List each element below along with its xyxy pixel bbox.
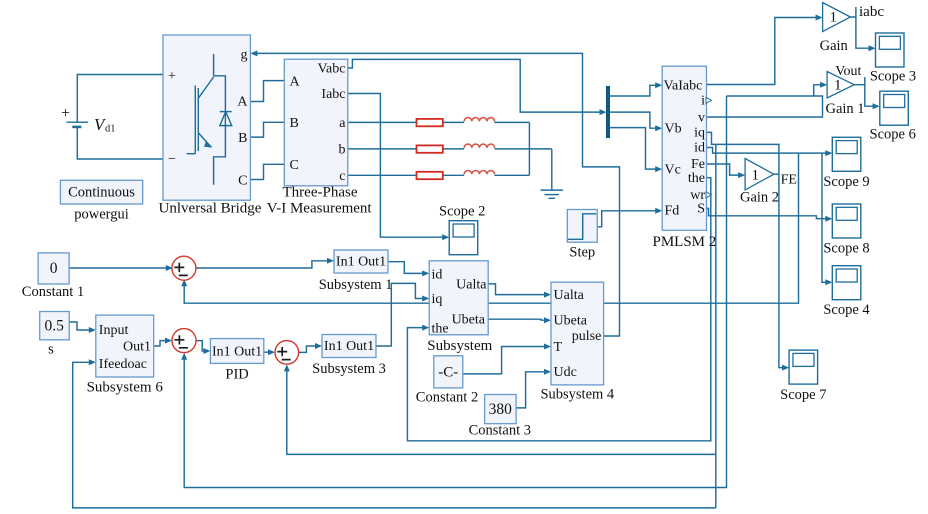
svg-text:Subsystem: Subsystem <box>427 338 492 354</box>
svg-text:Vout: Vout <box>835 64 861 79</box>
Scope 9 <box>823 137 869 190</box>
svg-text:−: − <box>168 152 176 167</box>
wire iq feedback to sum2 <box>287 367 716 455</box>
svg-text:+: + <box>168 69 176 84</box>
Step block <box>567 210 597 261</box>
Scope 7 <box>780 350 826 403</box>
svg-text:A: A <box>290 75 301 90</box>
svg-text:the: the <box>688 171 705 186</box>
resistor Rb <box>417 145 443 152</box>
svg-text:Iabc: Iabc <box>321 87 345 102</box>
wire Constant 3 to Udc <box>516 372 548 408</box>
svg-text:v: v <box>698 110 705 125</box>
svg-text:Three-Phase: Three-Phase <box>283 184 358 200</box>
wire bridge A to VI A <box>250 81 284 102</box>
svg-text:pulse: pulse <box>572 329 602 344</box>
svg-text:Step: Step <box>569 245 595 261</box>
PMLSM 2 <box>653 66 717 250</box>
inductor La <box>464 118 494 122</box>
Three-Phase V-I Measurement <box>267 59 373 216</box>
svg-text:Gain 1: Gain 1 <box>825 101 864 117</box>
wire Out1 to sum1 <box>154 341 170 346</box>
svg-text:T: T <box>554 340 563 355</box>
svg-text:Subsystem 3: Subsystem 3 <box>312 361 386 377</box>
wire v branch to Gain 1 <box>814 85 826 96</box>
svg-text:-C-: -C- <box>438 365 458 381</box>
svg-text:Scope 3: Scope 3 <box>870 68 916 84</box>
svg-text:Out1: Out1 <box>123 340 151 355</box>
Gain <box>820 3 885 54</box>
wire iq feedback to Ifeedoac <box>73 362 716 508</box>
svg-text:PID: PID <box>225 367 248 383</box>
wire Subsystem 3 to iq input <box>376 283 427 346</box>
svg-text:S: S <box>697 202 705 217</box>
wire Gain 1 to Scope 6 <box>854 77 877 106</box>
Gain 1 <box>825 64 864 117</box>
wire star junction vertical <box>528 122 530 175</box>
Constant 1 <box>22 253 84 300</box>
svg-text:Ualta: Ualta <box>456 277 487 292</box>
Scope 8 <box>823 204 869 256</box>
svg-text:Input: Input <box>99 323 129 338</box>
svg-text:Vabc: Vabc <box>318 62 346 77</box>
wire v output loop <box>707 96 823 117</box>
resistor Rc <box>417 172 443 179</box>
wire pulse to g <box>253 53 620 336</box>
wire bridge C to VI C <box>250 164 284 179</box>
svg-text:1: 1 <box>752 168 760 184</box>
svg-text:Unlversal Bridge: Unlversal Bridge <box>159 201 262 217</box>
ground <box>541 190 564 198</box>
svg-text:V-I Measurement: V-I Measurement <box>267 201 373 217</box>
svg-text:powergui: powergui <box>74 207 129 223</box>
Constant 2 <box>416 356 478 406</box>
wire bridge B to VI B <box>250 122 284 137</box>
svg-text:In1 Out1: In1 Out1 <box>336 255 386 270</box>
wire v feedback down to sum1 <box>184 96 726 488</box>
Subsystem 1 <box>319 250 393 293</box>
Subsystem 6 <box>87 315 164 395</box>
battery V_d1 <box>61 105 116 135</box>
svg-text:Vb: Vb <box>665 122 682 137</box>
svg-text:id: id <box>694 141 705 156</box>
wire the output feedback <box>407 178 710 441</box>
Subsystem 3 <box>312 335 386 378</box>
svg-text:Scope 4: Scope 4 <box>823 302 870 318</box>
svg-text:1: 1 <box>830 10 838 26</box>
svg-text:Constant 2: Constant 2 <box>416 390 478 406</box>
svg-text:iq: iq <box>432 292 443 307</box>
svg-text:Constant 1: Constant 1 <box>22 284 84 300</box>
svg-text:VaIabc: VaIabc <box>664 78 703 93</box>
svg-text:Ifeedoac: Ifeedoac <box>99 357 147 372</box>
sum junction sum0 <box>172 256 196 280</box>
svg-text:g: g <box>241 48 248 63</box>
wire iq branch down <box>715 144 717 508</box>
svg-text:B: B <box>238 131 247 146</box>
mux bar <box>606 86 610 138</box>
svg-text:Ualta: Ualta <box>554 288 585 303</box>
svg-text:B: B <box>290 116 299 131</box>
wire phase b <box>348 148 552 150</box>
svg-text:Scope 8: Scope 8 <box>823 240 869 256</box>
svg-text:Fd: Fd <box>665 204 680 219</box>
wire battery plus to bridge <box>77 75 163 123</box>
constant 0.5 <box>40 312 69 358</box>
Scope 4 <box>823 266 870 318</box>
Scope 2 <box>439 203 485 254</box>
svg-text:Scope 9: Scope 9 <box>823 174 869 190</box>
sum junction sum2 <box>275 341 299 365</box>
wire sum1 to PID <box>196 341 208 351</box>
svg-text:FE: FE <box>781 173 797 188</box>
svg-text:380: 380 <box>489 401 513 418</box>
sum junction sum1 <box>172 329 196 353</box>
svg-text:iq: iq <box>694 126 705 141</box>
wire Iabc to Scope 2 <box>348 94 447 238</box>
wire Vabc to mux bar <box>348 59 604 112</box>
svg-text:Scope 7: Scope 7 <box>780 387 826 403</box>
Scope 6 <box>870 91 916 143</box>
svg-text:Constant 3: Constant 3 <box>469 423 531 439</box>
wire mux to VaIabc <box>610 85 660 96</box>
svg-text:Ubeta: Ubeta <box>452 313 486 328</box>
wire sum0 to Subsystem 1 <box>195 261 332 268</box>
wire ground lead <box>551 149 553 190</box>
svg-text:A: A <box>237 95 248 110</box>
wire id output to Scope 9 <box>707 148 831 154</box>
svg-text:Scope 2: Scope 2 <box>439 203 485 219</box>
wire Subsystem 1 to id input <box>388 262 427 274</box>
wire Gain 2 out stub <box>774 173 779 175</box>
svg-text:PMLSM 2: PMLSM 2 <box>653 234 717 250</box>
inductor Lb <box>464 144 494 148</box>
svg-text:Ubeta: Ubeta <box>554 314 588 329</box>
svg-text:s: s <box>48 342 54 358</box>
wire Gain to Scope 3 <box>850 7 873 48</box>
wire Constant 1 to sum0 <box>69 267 170 269</box>
wire mux to Vc <box>610 128 660 170</box>
powergui Continuous <box>60 180 142 222</box>
wire Constant 2 to T <box>463 347 549 374</box>
Universal Bridge U1 <box>159 35 262 217</box>
wire VaIabc out to Gain <box>707 18 821 85</box>
svg-text:d1: d1 <box>105 124 116 135</box>
inductor Lc <box>464 171 494 175</box>
Scope 3 <box>870 33 916 84</box>
svg-text:b: b <box>339 143 346 158</box>
svg-text:a: a <box>339 116 346 131</box>
wire sum2 to Subsystem 3 <box>299 346 320 352</box>
svg-text:+: + <box>61 105 70 122</box>
Subsystem 4 <box>540 282 614 403</box>
svg-text:Vc: Vc <box>665 162 681 177</box>
svg-text:Subsystem 4: Subsystem 4 <box>540 387 614 403</box>
wire 0.5 to Input <box>69 322 93 330</box>
wire S to Scope 8 <box>707 208 831 218</box>
Constant 3 <box>469 395 531 439</box>
svg-text:0.5: 0.5 <box>45 318 65 335</box>
wire Step to Fd <box>597 211 660 227</box>
resistor Ra <box>417 119 443 126</box>
svg-text:Subsystem 6: Subsystem 6 <box>87 379 164 395</box>
wire Fe to Gain 2 <box>707 164 743 175</box>
wire battery minus to bridge <box>77 127 163 159</box>
svg-text:i: i <box>701 94 705 109</box>
wire Ualta to Subsystem 4 <box>488 284 548 295</box>
svg-text:In1 Out1: In1 Out1 <box>212 344 262 359</box>
svg-text:1: 1 <box>834 78 842 94</box>
svg-text:Continuous: Continuous <box>68 185 135 201</box>
svg-text:the: the <box>432 322 449 337</box>
svg-text:Gain: Gain <box>820 38 849 54</box>
wire phase c <box>348 174 530 176</box>
svg-text:c: c <box>339 169 345 184</box>
wire id branch to sum0 <box>184 153 798 303</box>
svg-text:Udc: Udc <box>554 365 577 380</box>
svg-text:Scope 6: Scope 6 <box>870 127 916 143</box>
svg-text:0: 0 <box>50 260 58 277</box>
wire phase a <box>348 121 530 123</box>
PID block <box>210 339 263 383</box>
Gain 2 <box>740 159 797 206</box>
wire iq output to Scope 7 <box>707 132 787 367</box>
svg-text:Gain 2: Gain 2 <box>740 190 779 206</box>
svg-text:In1 Out1: In1 Out1 <box>324 339 374 354</box>
svg-text:id: id <box>432 268 443 283</box>
wire Ubeta to Subsystem 4 <box>488 319 548 320</box>
svg-text:C: C <box>290 158 299 173</box>
wire id branch to Scope 4 <box>822 153 830 282</box>
Subsystem (alpha-beta) <box>427 261 492 354</box>
svg-text:iabc: iabc <box>859 4 884 20</box>
IGBT and diode icon <box>187 54 232 185</box>
wire PID to sum2 <box>264 351 273 353</box>
svg-text:Subsystem 1: Subsystem 1 <box>319 277 393 293</box>
wire mux to Vb <box>610 112 660 128</box>
svg-text:C: C <box>238 174 247 189</box>
